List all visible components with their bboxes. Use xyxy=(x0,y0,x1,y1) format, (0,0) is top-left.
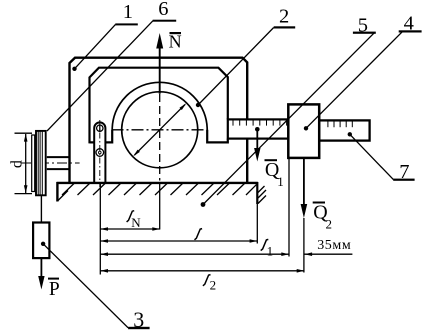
link centerline xyxy=(99,120,101,187)
label N with bar xyxy=(170,32,182,34)
d dimension extension lines xyxy=(15,132,33,134)
bore circle xyxy=(122,92,198,168)
label Q2 with bar xyxy=(313,202,325,204)
dimension extension line left (at screw axis) xyxy=(99,184,101,275)
leader dot 4 xyxy=(304,126,308,130)
right rod ticks xyxy=(328,121,352,127)
svg-text:N: N xyxy=(131,215,141,230)
housing inner boss outline xyxy=(90,68,228,144)
dimension l1 xyxy=(100,253,289,255)
extension line at Q1 xyxy=(256,204,258,244)
axle centerline xyxy=(21,162,80,164)
ground right drop xyxy=(256,182,258,204)
d dimension line with arrows xyxy=(25,134,27,193)
pulley groove lines xyxy=(37,132,39,195)
pulley left cap xyxy=(32,135,35,192)
cord from pulley to weight xyxy=(40,195,42,222)
ground left drop xyxy=(56,182,58,202)
label P with bar xyxy=(48,278,59,280)
dimension 35mm (outside arrow) xyxy=(304,253,352,255)
svg-text:N: N xyxy=(169,32,182,52)
svg-text:1: 1 xyxy=(277,174,284,189)
svg-text:2: 2 xyxy=(326,217,333,232)
svg-text:1: 1 xyxy=(123,1,133,23)
Q2 extension line continues to l2 xyxy=(303,218,305,273)
svg-text:d: d xyxy=(9,160,26,168)
horizontal centerline of bore xyxy=(112,129,209,131)
force Q2 arrow xyxy=(303,158,305,206)
svg-text:1: 1 xyxy=(267,243,274,258)
shaft scale ticks xyxy=(233,120,287,125)
screw head circle with slot xyxy=(97,125,103,131)
svg-text:35мм: 35мм xyxy=(317,238,351,253)
dimension l2 xyxy=(100,270,304,272)
vertical centerline of bore xyxy=(159,94,161,181)
dimension l xyxy=(100,240,257,242)
ground line with hatching xyxy=(57,182,258,184)
lower pin circle xyxy=(96,149,104,157)
pulley body xyxy=(36,131,46,195)
leader dot 7 xyxy=(348,132,352,136)
svg-text:P: P xyxy=(49,279,60,300)
bore diameter arrows (45 deg) xyxy=(135,105,186,156)
svg-text:2: 2 xyxy=(279,5,289,27)
slider block (element 4) xyxy=(288,104,319,157)
clamp screw link (element 6 area) xyxy=(94,122,105,183)
pulley axle shaft to housing wall xyxy=(47,156,69,158)
extension of bore centerline below ground xyxy=(159,184,161,230)
force Q1 arrow with dot xyxy=(255,127,260,132)
leader dot 3 xyxy=(41,242,45,246)
dimension lN xyxy=(100,228,160,230)
force N arrow xyxy=(159,48,161,94)
svg-text:6: 6 xyxy=(158,0,168,20)
label Q1 with bar xyxy=(265,159,278,161)
bearing cap arc (element 2) xyxy=(112,82,207,130)
right rod (element 7) xyxy=(319,120,370,140)
extension line at block left edge xyxy=(288,158,290,257)
hatching strokes xyxy=(58,184,266,204)
weight block (element 3) xyxy=(33,223,49,259)
svg-text:2: 2 xyxy=(210,278,217,293)
housing outer outline (bracket 1) xyxy=(70,58,248,183)
force P arrow xyxy=(40,258,42,278)
drawbar shaft with scale (between housing and block) xyxy=(228,119,289,138)
